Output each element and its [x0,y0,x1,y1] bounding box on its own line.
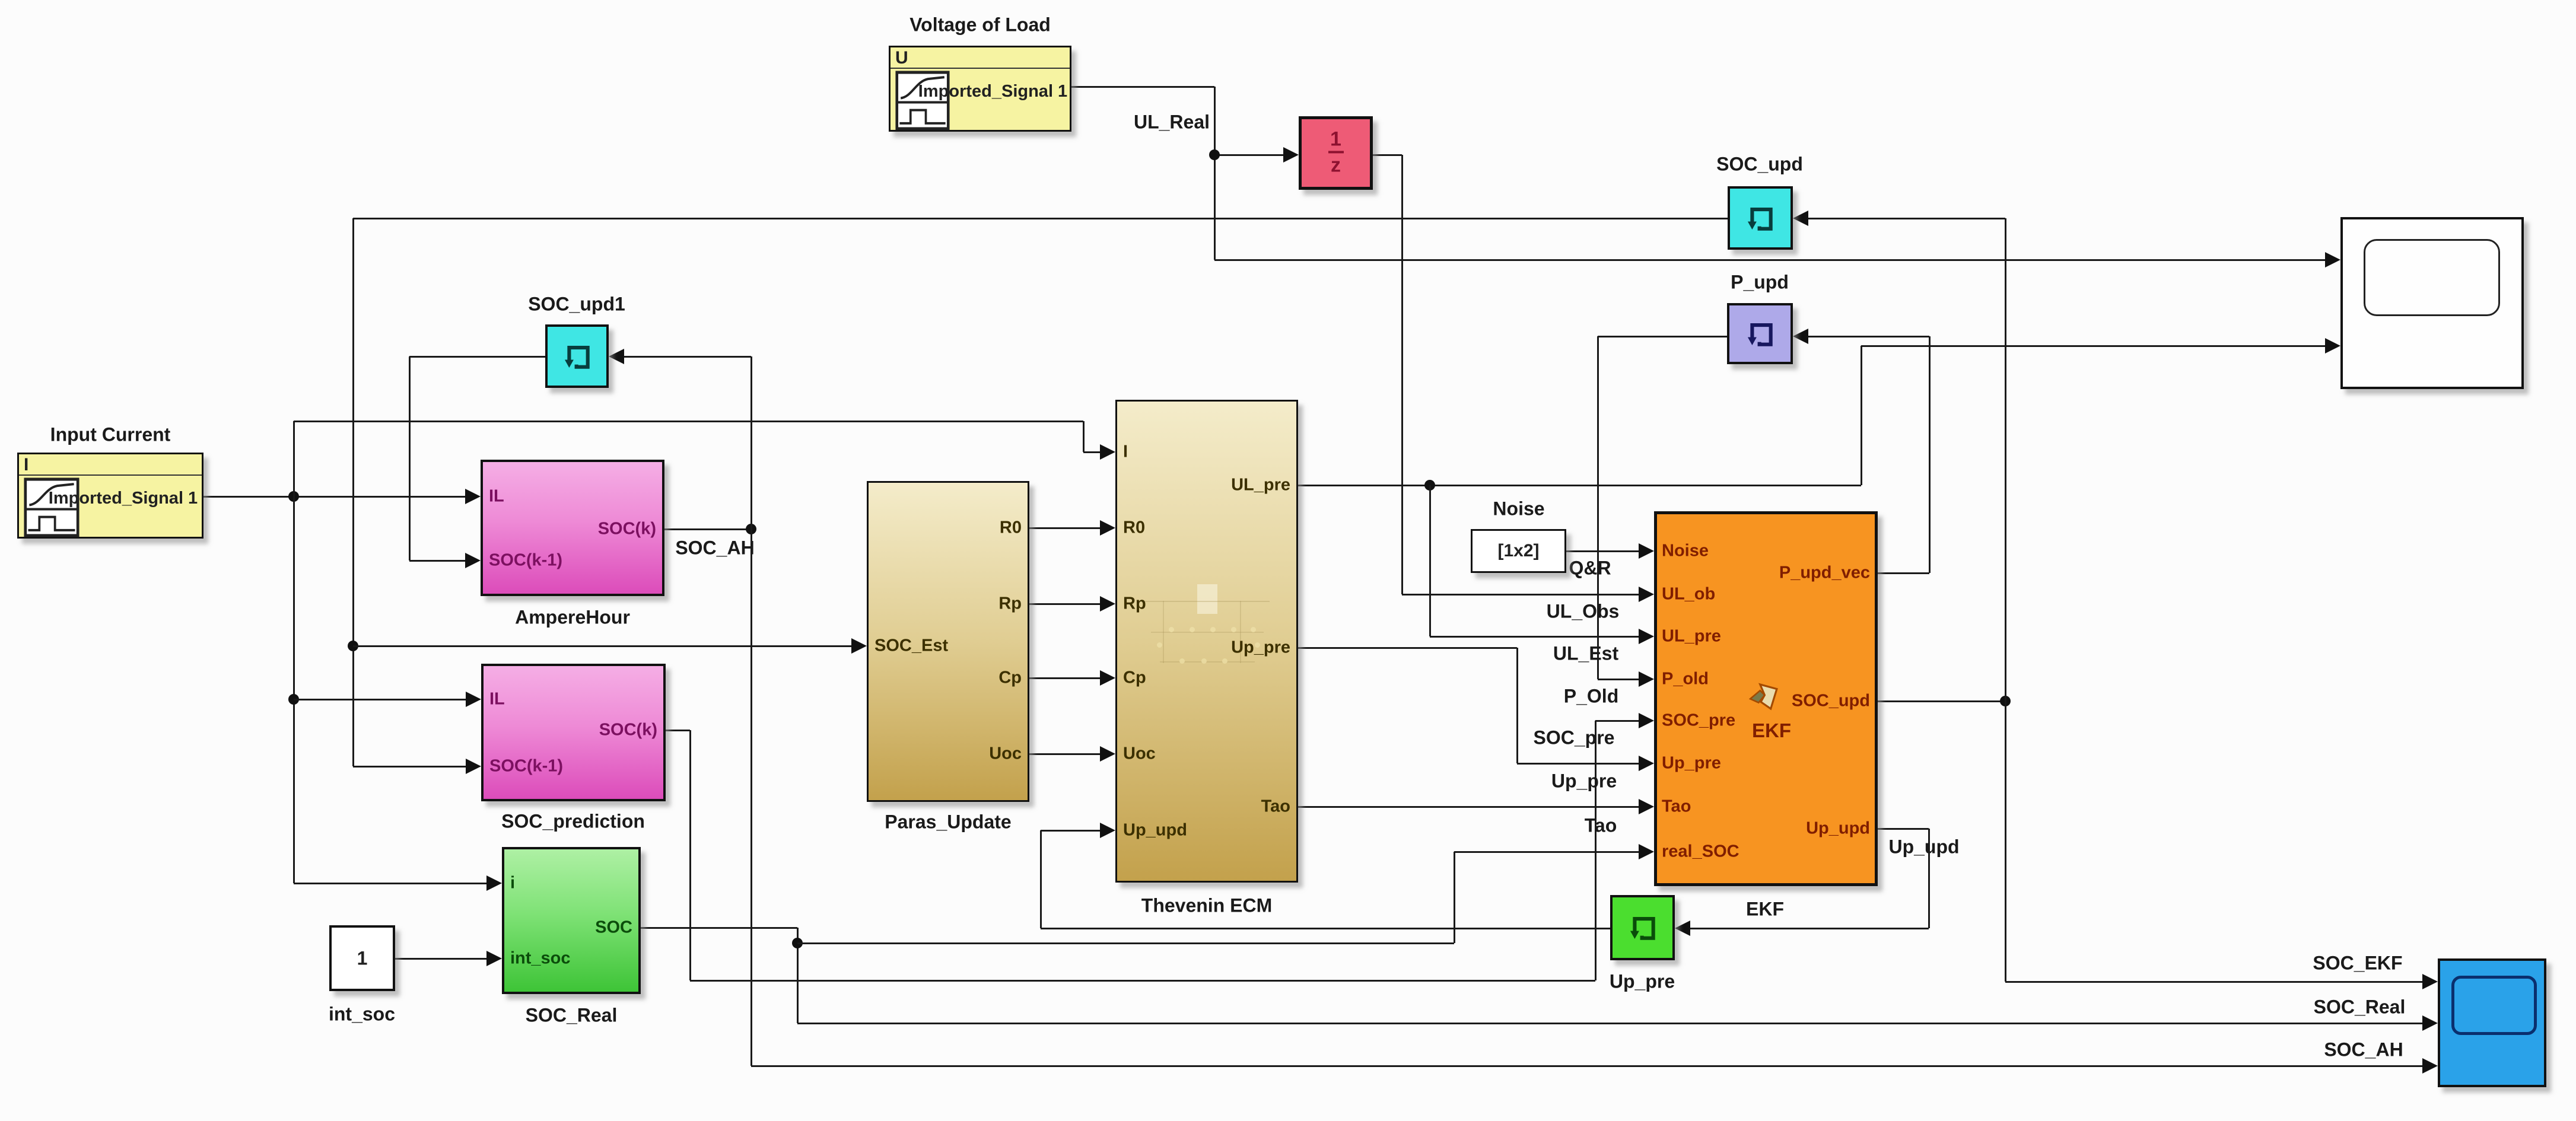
wire P_old out of memory [1598,336,1727,337]
junction UL_Real branch [1209,149,1220,160]
wire SOC_upd out vertical [352,218,354,766]
junction SOC_upd branch [2000,696,2011,706]
label Thevenin ECM title [1141,895,1272,917]
wire Up_upd into Thevenin [1041,830,1100,832]
wire Rp wire [1029,603,1100,605]
arrowhead into EKF Tao [1639,799,1654,814]
arrowhead into P_upd memory [1793,329,1808,344]
wire AmpereHour SOC(k) out [664,528,751,530]
wire UL_pre to scope vertical [1861,346,1862,485]
arrowhead into EKF real_SOC [1639,844,1654,859]
arrowhead into blue scope port 2 [2422,1015,2438,1031]
block int_soc constant 1 [329,925,395,991]
wire current to SOC_Real i [294,883,486,884]
label P_Old [1564,686,1618,708]
arrowhead into EKF SOC_pre [1639,713,1654,728]
wire Up_pre out [1298,647,1517,649]
wire SOC_AH to blue scope [751,1065,2422,1067]
wire R0 wire [1029,527,1100,529]
wire Input Current to AmpereHour IL [203,496,465,498]
wire current drop to I port [1083,421,1085,452]
junction input current branch [288,491,299,502]
label Input Current title [50,424,171,446]
wire P_old vertical [1597,336,1599,679]
arrowhead into SOC_prediction SOC(k-1) [466,759,481,774]
wire SOC_pre into EKF [1595,720,1639,722]
wire into AmpereHour SOC(k-1) [409,560,465,562]
junction SOC_Est branch [348,641,358,651]
label SOC_prediction title [501,811,645,833]
label Up_upd wire [1888,836,1959,858]
arrowhead into EKF Up_pre [1639,756,1654,771]
wire SOC out drop [797,928,799,1023]
decorative faint circuit inside Thevenin ECM [1145,584,1270,694]
arrowhead into Thevenin Rp [1100,596,1115,612]
label UL_Real [1134,112,1210,133]
wire real_SOC into EKF [1454,851,1639,853]
label EKF title [1746,899,1784,921]
label P_upd title [1731,272,1789,294]
block SOC_prediction (subsystem) [481,664,666,801]
arrowhead into Up_pre memory [1675,921,1690,936]
label Up_pre title [1610,971,1675,993]
wire P_old into EKF [1598,679,1639,680]
wire P_upd_vec into memory [1808,336,1929,337]
wire SOC_AH vertical [750,356,752,1066]
arrowhead into Thevenin Uoc [1100,746,1115,762]
arrowhead into Scope port 2 [2325,338,2340,354]
block SOC_upd1 (memory) [545,324,609,388]
wire current to SOC_prediction IL [294,699,466,700]
wire SOC_pre vertical right [1595,721,1597,980]
block EKF (MATLAB Function) [1654,511,1878,886]
MATLAB logo icon [1747,679,1785,717]
block Voltage of Load (signal source) [889,46,1071,132]
wire Up_upd out [1878,828,1929,830]
arrowhead into Thevenin I [1100,444,1115,460]
label SOC_Real title [526,1005,618,1027]
wire UL_pre to scope [1861,345,2325,347]
wire UL_Obs from 1/z [1373,154,1402,156]
arrowhead into SOC_upd memory [1793,211,1808,226]
label SOC_AH near AmpereHour [675,537,754,559]
block AmpereHour (subsystem) [481,460,664,596]
block Noise [1x2] [1471,529,1566,573]
arrowhead into SOC_Real i [486,875,502,891]
wire current to Thevenin I [294,421,1083,422]
label SOC_upd title [1716,154,1803,176]
wire Up_pre memory out rise [1040,830,1042,928]
junction UL_pre branch [1424,480,1435,491]
wire SOC_upd1 out vertical [409,356,411,560]
wire SOC out [641,927,797,929]
wire P_upd_vec out [1878,572,1929,574]
label Tao wire [1585,815,1617,837]
wire SOC_upd into memory [1808,218,2005,219]
wire input current vertical [293,421,295,883]
label UL_Est [1553,643,1618,665]
label Voltage of Load title [909,14,1051,36]
wire Up_pre into EKF [1517,763,1639,765]
block Thevenin ECM (subsystem) [1115,400,1298,883]
arrowhead into EKF P_old [1639,671,1654,687]
arrowhead into Scope port 1 [2325,252,2340,267]
block Unit Delay 1/z [1299,116,1373,190]
wire UL_Real down [1214,87,1216,260]
wire SOC_EKF to blue scope [2005,981,2422,983]
block SOC_upd (memory) [1728,186,1793,250]
arrowhead into AmpereHour IL [465,489,481,504]
arrowhead into blue scope port 1 [2422,974,2438,989]
wire UL_Real to unit delay [1214,154,1283,156]
wire UL_Obs down [1401,155,1403,594]
label int_soc title [329,1004,395,1026]
wire SOC(k) pred out [666,730,690,731]
arrowhead into Paras SOC_Est [851,638,867,654]
wire int_soc wire [395,958,486,960]
arrowhead into EKF UL_pre [1639,629,1654,644]
arrowhead into 1/z [1283,147,1299,163]
arrowhead into blue scope port 3 [2422,1058,2438,1074]
wire into SOC_upd1 memory [624,356,751,358]
block P_upd (memory) [1727,303,1793,364]
wire SOC_upd vertical [2005,218,2006,982]
wire SOC_upd from EKF [1878,700,2005,702]
arrowhead into SOC_upd1 [609,349,624,364]
wire current into I [1083,451,1100,453]
junction SOC_Real branch [792,938,803,948]
label UL_Obs [1547,601,1620,623]
arrowhead into EKF Noise [1639,543,1654,559]
wire real_SOC rise [1454,852,1455,943]
wire Up_pre vertical [1516,648,1518,763]
arrowhead into Thevenin Cp [1100,670,1115,686]
block Input Current (signal source) [17,453,203,539]
wire Up_upd vertical [1928,829,1930,928]
block Paras_Update (subsystem) [867,481,1029,802]
label Up_pre wire [1551,770,1617,792]
arrowhead into Thevenin R0 [1100,520,1115,536]
wire UL_Real to Scope input 1 [1214,259,2325,261]
block Scope (white) [2340,217,2524,389]
wire Cp wire [1029,677,1100,679]
wire Uoc wire [1029,753,1100,755]
wire to SOC_prediction SOC(k-1) [353,766,466,767]
label Q&R [1569,558,1611,579]
arrowhead into EKF UL_ob [1639,587,1654,602]
wire UL_pre out [1298,485,1861,486]
label SOC_AH near scope [2324,1039,2403,1061]
wire UL_Obs to EKF UL_ob [1402,594,1639,595]
block Up_pre (memory) [1610,895,1675,960]
block Scope1 (blue) [2438,958,2546,1087]
wire SOC_Real to blue scope [797,1023,2422,1024]
block SOC_Real (subsystem) [502,847,641,994]
wire UL_pre to EKF vertical [1429,485,1431,636]
wire Noise wire [1566,550,1639,552]
label Paras_Update title [885,811,1011,833]
label AmpereHour title [515,607,630,629]
wire SOC_upd memory out long [353,218,1728,219]
wire Tao wire [1298,806,1639,808]
label SOC_pre wire [1534,727,1615,749]
wire Up_upd into green memory [1690,928,1929,929]
wire Up_pre memory out [1041,928,1610,929]
wire SOC_pre long [690,980,1595,982]
wire real_SOC long [797,942,1454,944]
label SOC_EKF [2313,953,2402,974]
wire SOC_upd1 out [409,356,545,358]
wire UL_pre into EKF [1430,636,1639,638]
arrowhead into SOC_Real int_soc [486,951,502,966]
wire SOC_pre vertical left [689,730,691,980]
label SOC_Real wire [2314,996,2406,1018]
wire to Paras SOC_Est [353,645,851,647]
label SOC_upd1 title [528,294,625,316]
junction current branch 2 [288,694,299,705]
arrowhead into Thevenin Up_upd [1100,823,1115,838]
wire P_upd_vec vertical [1929,336,1931,573]
arrowhead into AmpereHour SOC(k-1) [465,553,481,568]
label Noise title [1493,498,1544,520]
junction SOC_AH branch [746,524,756,534]
arrowhead into SOC_prediction IL [466,692,481,707]
wire UL_Real from Voltage of Load [1071,86,1214,88]
